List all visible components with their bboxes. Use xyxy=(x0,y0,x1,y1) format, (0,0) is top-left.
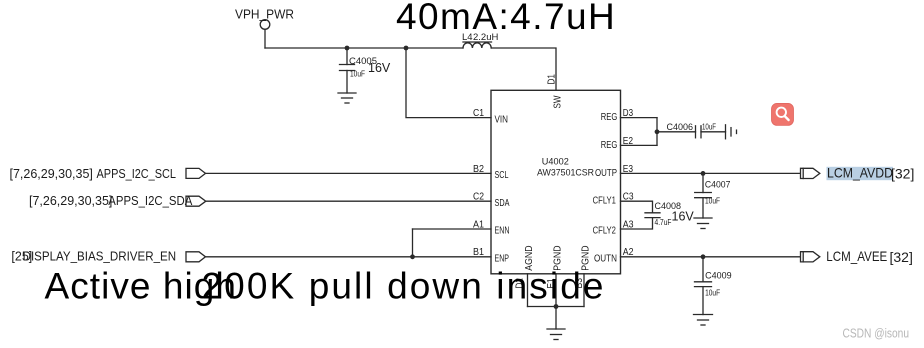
junction OUTP C4007 xyxy=(701,171,706,176)
svg-text:B2: B2 xyxy=(473,164,484,175)
pin number B1 xyxy=(473,247,484,258)
inductor L4 ref and value labels xyxy=(462,32,498,43)
svg-text:VPH_PWR: VPH_PWR xyxy=(235,8,294,22)
wire REG E2 xyxy=(621,144,658,146)
svg-text:C4006: C4006 xyxy=(667,122,694,133)
value C4005 16V xyxy=(368,61,391,75)
svg-text:[32]: [32] xyxy=(890,249,913,265)
svg-text:E2: E2 xyxy=(623,136,634,147)
pin name ENP xyxy=(495,254,510,265)
wire AGND pin down xyxy=(527,274,529,307)
svg-text:A1: A1 xyxy=(473,219,484,230)
svg-text:ENN: ENN xyxy=(495,226,510,237)
pin number C3 xyxy=(623,192,634,203)
watermark CSDN @isonu xyxy=(843,327,910,341)
pin name ENN xyxy=(495,226,510,237)
node VPH_PWR terminal xyxy=(260,20,270,30)
wire ground bus xyxy=(528,306,585,308)
pin number D1 xyxy=(547,74,558,85)
capacitor C4008 xyxy=(645,213,660,218)
pin name AGND xyxy=(524,246,535,271)
svg-text:SW: SW xyxy=(553,95,564,108)
wire SCL xyxy=(206,172,492,174)
pin number C1 xyxy=(473,108,484,119)
search icon xyxy=(772,103,794,125)
svg-text:APPS_I2C_SDA: APPS_I2C_SDA xyxy=(108,194,193,208)
pin number C2 xyxy=(473,192,484,203)
svg-text:C4009: C4009 xyxy=(705,271,732,282)
value C4009 10uF xyxy=(705,287,720,297)
net DISPLAY_BIAS_DRIVER_EN labels xyxy=(11,249,176,263)
port APPS_I2C_SCL xyxy=(186,168,206,178)
wire PGND2 pin down xyxy=(583,274,585,307)
capacitor C4006 xyxy=(696,126,702,138)
svg-text:[7,26,29,30,35]: [7,26,29,30,35] xyxy=(10,167,93,181)
pin number A3 xyxy=(623,219,634,230)
wire top rail xyxy=(265,47,463,49)
ground below C4007 xyxy=(694,218,712,229)
capacitor C4006 ref label xyxy=(667,122,694,133)
pin name VIN xyxy=(495,114,509,125)
wire VPH_PWR vertical xyxy=(264,29,266,48)
svg-text:A3: A3 xyxy=(623,219,634,230)
net VPH_PWR label xyxy=(235,8,294,22)
wire REG to C4006 xyxy=(657,131,696,133)
svg-text:U4002: U4002 xyxy=(542,156,569,167)
pin name CFLY1 xyxy=(593,196,617,207)
capacitor C4005 ref label xyxy=(349,56,377,67)
net LCM_AVEE label xyxy=(826,248,913,265)
svg-text:10uF: 10uF xyxy=(702,121,716,131)
pin number D2 xyxy=(514,278,525,289)
wire C4009 upper lead xyxy=(702,257,704,282)
capacitor C4005 xyxy=(340,65,355,71)
svg-text:16V: 16V xyxy=(368,61,391,75)
op-amp U4002 body xyxy=(491,90,621,273)
junction at VIN tap xyxy=(404,46,409,51)
junction ENP tie xyxy=(410,254,415,259)
svg-text:LCM_AVEE: LCM_AVEE xyxy=(826,248,887,264)
net LCM_AVDD label xyxy=(827,165,914,182)
value C4008 16V xyxy=(672,210,695,224)
ground below C4005 xyxy=(338,93,356,103)
value C4006 10uF xyxy=(702,121,716,131)
capacitor C4009 ref label xyxy=(705,271,732,282)
svg-text:ENP: ENP xyxy=(495,254,510,265)
pin number A1 xyxy=(473,219,484,230)
svg-text:[7,26,29,30,35]: [7,26,29,30,35] xyxy=(29,194,112,208)
wire C4009 lower lead xyxy=(702,287,704,315)
pin name SDA xyxy=(495,198,510,209)
port APPS_I2C_SDA xyxy=(186,196,206,206)
net APPS_I2C_SCL labels xyxy=(10,167,177,181)
net LCM_AVDD highlight xyxy=(827,167,894,180)
svg-text:16V: 16V xyxy=(672,210,695,224)
svg-text:LCM_AVDD: LCM_AVDD xyxy=(827,165,893,181)
svg-text:D1: D1 xyxy=(547,74,558,85)
wire REG D3 xyxy=(621,117,658,119)
pin name SW xyxy=(553,95,564,108)
wire C4006 to ground xyxy=(701,131,726,133)
net APPS_I2C_SDA labels xyxy=(29,194,193,208)
svg-text:E3: E3 xyxy=(623,164,634,175)
svg-text:SCL: SCL xyxy=(495,170,509,181)
pin number E1 xyxy=(546,278,557,288)
annotation Active high xyxy=(45,265,238,306)
svg-text:DISPLAY_BIAS_DRIVER_EN: DISPLAY_BIAS_DRIVER_EN xyxy=(23,249,177,263)
svg-text:10uF: 10uF xyxy=(705,195,720,205)
port LCM_AVEE xyxy=(801,252,820,262)
pin name SCL xyxy=(495,170,509,181)
wire C4007 upper lead xyxy=(702,173,704,192)
pin number B3 xyxy=(574,278,585,289)
wire SDA xyxy=(206,200,491,202)
svg-text:D3: D3 xyxy=(623,108,634,119)
svg-text:CSDN @isonu: CSDN @isonu xyxy=(843,327,910,341)
svg-text:C4007: C4007 xyxy=(705,179,731,190)
wire PGND pin down xyxy=(555,274,557,307)
wire inductor to SW xyxy=(491,48,556,90)
svg-text:SDA: SDA xyxy=(495,198,510,209)
svg-text:A2: A2 xyxy=(623,247,634,258)
inductor L4 coil xyxy=(463,42,492,48)
svg-text:APPS_I2C_SCL: APPS_I2C_SCL xyxy=(97,167,177,181)
wire OUTN xyxy=(621,256,801,258)
pin name REG top xyxy=(601,112,618,123)
svg-text:OUTN: OUTN xyxy=(594,253,617,264)
svg-text:C3: C3 xyxy=(623,192,634,203)
pin number E3 xyxy=(623,164,634,175)
svg-text:REG: REG xyxy=(601,140,618,151)
svg-text:AW37501CSR: AW37501CSR xyxy=(537,168,594,179)
wire REG tie vertical xyxy=(656,118,658,146)
wire C4005 lower lead xyxy=(346,71,348,94)
capacitor C4008 ref label xyxy=(655,201,682,212)
svg-text:B1: B1 xyxy=(473,247,484,258)
pin name REG bottom xyxy=(601,140,618,151)
wire C4007 lower lead xyxy=(702,198,704,218)
svg-text:OUTP: OUTP xyxy=(595,168,617,179)
wire C4005 upper lead xyxy=(346,48,348,65)
pin name OUTN xyxy=(594,253,617,264)
port DISPLAY_BIAS_DRIVER_EN xyxy=(186,252,206,262)
wire bus to ground xyxy=(555,307,557,330)
capacitor C4007 xyxy=(695,193,712,198)
svg-text:REG: REG xyxy=(601,112,618,123)
svg-text:VIN: VIN xyxy=(495,114,509,125)
pin name OUTP xyxy=(595,168,617,179)
capacitor C4007 ref label xyxy=(705,179,731,190)
value C4007 10uF xyxy=(705,195,720,205)
pin number A2 xyxy=(623,247,634,258)
svg-text:10uF: 10uF xyxy=(350,69,365,79)
ground below C4009 xyxy=(694,315,713,326)
pin number B2 xyxy=(473,164,484,175)
pin name PGND xyxy=(552,246,563,271)
wire VIN tap xyxy=(406,48,491,118)
wire ENN xyxy=(413,228,492,230)
annotation 200K pull down inside xyxy=(202,265,606,306)
svg-text:4.7uF: 4.7uF xyxy=(655,217,672,227)
svg-text:40mA:4.7uH: 40mA:4.7uH xyxy=(396,0,616,37)
junction OUTN C4009 xyxy=(701,254,706,259)
svg-text:C1: C1 xyxy=(473,108,484,119)
pin name PGND2 xyxy=(580,246,591,271)
svg-text:C2: C2 xyxy=(473,192,484,203)
value C4008 4.7uF xyxy=(655,217,672,227)
pin number D3 xyxy=(623,108,634,119)
annotation 40mA:4.7uH xyxy=(396,0,616,37)
svg-text:200K pull down inside: 200K pull down inside xyxy=(202,265,606,306)
svg-text:[32]: [32] xyxy=(891,165,914,181)
wire ENN-ENP tie xyxy=(412,229,414,257)
wire ENP xyxy=(206,256,492,258)
wire CFLY2 xyxy=(621,218,653,229)
capacitor C4009 xyxy=(695,282,712,287)
junction ground bus xyxy=(554,304,559,309)
pin number E2 xyxy=(623,136,634,147)
op-amp U4002 ref labels xyxy=(537,156,594,178)
ground below U4002 xyxy=(547,329,565,340)
wire CFLY1 xyxy=(621,201,653,213)
port LCM_AVDD xyxy=(801,168,820,178)
junction REG node xyxy=(655,129,660,134)
svg-text:10uF: 10uF xyxy=(705,287,720,297)
pin name CFLY2 xyxy=(593,226,617,237)
wire OUTP xyxy=(621,172,801,174)
junction at C4005 tap xyxy=(345,46,350,51)
svg-text:CFLY1: CFLY1 xyxy=(593,196,617,207)
ground right of C4006 xyxy=(726,125,737,139)
svg-text:CFLY2: CFLY2 xyxy=(593,226,617,237)
value C4005 10uF xyxy=(350,69,365,79)
